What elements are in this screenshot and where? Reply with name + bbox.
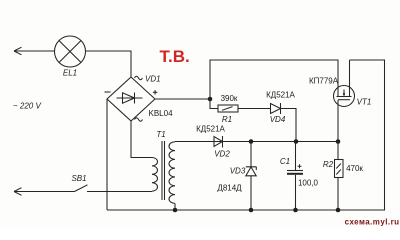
label ~ (AC bottom) (135, 118, 143, 121)
zener diode VD3 (246, 167, 256, 176)
junction dot R2 on bus (336, 208, 341, 213)
wire: bridge minus to bottom bus (106, 99, 108, 210)
wire: mains arrow to switch SB1 (14, 188, 75, 196)
bottom bus wire (107, 209, 385, 211)
wire: R2 to bottom bus (337, 178, 339, 211)
wire: gate line from transformer secondary to VT1 gate (175, 141, 338, 143)
transformer T1 primary winding (152, 158, 158, 192)
diode VD2 (214, 136, 223, 148)
node C junction dot (VD3 branch) (249, 139, 254, 144)
diode VD4 (271, 103, 281, 114)
svg-text:R1: R1 (222, 115, 232, 124)
svg-text:390к: 390к (221, 94, 238, 103)
junction dot C1 on bus (293, 208, 298, 213)
wire: node B to C1 (295, 142, 297, 171)
wire: bridge AC bottom to transformer primary top (131, 121, 152, 158)
node D junction dot (gate/R2) (336, 139, 341, 144)
svg-text:VD3: VD3 (230, 167, 246, 176)
wire: node A down to R1 (210, 99, 218, 109)
wire: node C to VD3 (250, 142, 252, 167)
label plus (153, 90, 157, 94)
svg-text:КД521А: КД521А (196, 125, 225, 134)
svg-text:VT1: VT1 (357, 98, 372, 107)
bridge rectifier VD1 (diamond) (107, 77, 155, 121)
svg-text:R2: R2 (323, 160, 334, 169)
svg-text:C1: C1 (280, 157, 290, 166)
label ~ (AC top) (135, 76, 143, 79)
junction dot VD3 on bus (249, 208, 254, 213)
switch SB1 lever (75, 185, 88, 192)
svg-text:схема.myl.ru: схема.myl.ru (345, 218, 400, 227)
svg-text:КД521А: КД521А (266, 91, 295, 100)
svg-text:Д814Д: Д814Д (217, 184, 242, 193)
wire: bridge plus to node A (155, 98, 210, 100)
svg-text:EL1: EL1 (63, 69, 77, 78)
svg-text:470к: 470к (346, 164, 363, 173)
capacitor C1 (287, 171, 303, 174)
wire: SB1 to transformer primary (87, 191, 152, 193)
node A junction dot (208, 97, 213, 102)
wire: node D to R2 (337, 142, 339, 160)
resistor R2 (335, 160, 344, 178)
wire: secondary to bottom bus (174, 203, 176, 210)
resistor R1 (218, 105, 238, 112)
svg-text:Т.В.: Т.В. (160, 47, 190, 66)
svg-text:~ 220 V: ~ 220 V (13, 102, 41, 111)
transformer T1 secondary winding (169, 142, 175, 204)
transformer core (162, 141, 165, 200)
wire: mains arrow to lamp EL1 (14, 47, 55, 55)
wire: VD3 to bottom bus (250, 176, 252, 210)
diode inside bridge (117, 93, 143, 104)
node B junction dot (C1 branch) (294, 139, 299, 144)
wire: R1 to VD4 (238, 108, 271, 110)
svg-text:T1: T1 (156, 130, 165, 139)
wire: lamp to bridge top corner (86, 51, 132, 77)
svg-text:VD1: VD1 (145, 75, 161, 84)
transistor VT1 (MOSFET КП779А) (334, 60, 355, 107)
junction dot secondary on bus (173, 208, 178, 213)
wire: node A up and top bus to VT1 drain (210, 60, 338, 99)
svg-text:KBL04: KBL04 (149, 109, 174, 118)
lamp EL1 (55, 36, 86, 67)
wire: VT1 source to right edge and bottom bus (350, 60, 385, 210)
wire: C1 to bottom bus (295, 175, 297, 210)
svg-text:VD2: VD2 (214, 150, 230, 159)
svg-text:100,0: 100,0 (298, 179, 319, 188)
wire: VD4 down to node B (281, 109, 297, 142)
svg-text:VD4: VD4 (270, 115, 286, 124)
svg-text:КП779А: КП779А (309, 77, 339, 86)
svg-text:SB1: SB1 (71, 174, 86, 183)
label + (C1 polarity) (298, 164, 302, 168)
wire: VT1 gate down to node D (337, 100, 339, 142)
label minus (105, 91, 111, 93)
